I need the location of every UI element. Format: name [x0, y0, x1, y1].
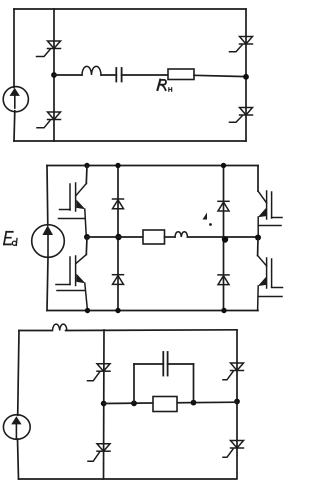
label i mark — [203, 213, 212, 226]
wire capacitor loop top left — [134, 363, 163, 365]
wire — [122, 74, 168, 76]
wire bottom bus — [14, 140, 246, 142]
voltage source Ed — [32, 225, 65, 258]
thyristor VS2 — [37, 112, 61, 128]
wire bottom rail — [19, 478, 237, 480]
IGBT VT4 — [258, 256, 283, 311]
label Ed — [4, 232, 17, 246]
wire right thyristor branch — [245, 9, 247, 141]
node right mid — [243, 74, 249, 80]
thyristor VS7 — [223, 363, 244, 380]
node mid-left leg — [84, 234, 90, 240]
wire right thyristor branch — [236, 330, 238, 479]
wire commutation mid — [104, 402, 237, 403]
wire left edge upper — [18, 331, 19, 416]
node left mid — [51, 72, 57, 78]
thyristor VS5 — [88, 364, 111, 381]
node — [131, 400, 137, 406]
wire — [188, 236, 259, 238]
inductor load — [175, 232, 188, 237]
node — [115, 308, 120, 313]
node mid-right leg — [255, 235, 261, 241]
wire top rail — [47, 165, 258, 167]
label Rн — [158, 80, 172, 92]
wire collector drop VT1 — [85, 166, 88, 184]
wire left edge lower — [18, 439, 19, 479]
node — [221, 163, 226, 168]
current source Id — [3, 415, 30, 440]
node — [222, 236, 228, 242]
capacitor C1 — [116, 68, 121, 82]
thyristor VS3 — [230, 37, 253, 52]
IGBT VT1 — [59, 183, 87, 237]
inductor L1 — [82, 66, 101, 75]
wire collector drop VT4 — [257, 238, 259, 256]
wire top bus — [14, 8, 246, 10]
wire — [101, 74, 116, 76]
diode VD1 — [113, 199, 124, 209]
wire — [165, 236, 176, 238]
wire collector drop VT3 — [257, 166, 259, 192]
capacitor Ck — [163, 352, 167, 376]
wire top — [66, 329, 237, 332]
node top-left leg — [84, 163, 89, 168]
node — [221, 308, 226, 313]
wire capacitor loop right leg — [193, 364, 195, 403]
wire — [194, 75, 246, 76]
node — [115, 234, 121, 240]
diode VD3 — [218, 201, 229, 211]
thyristor VS6 — [88, 444, 110, 462]
wire collector drop VT2 — [85, 237, 88, 255]
IGBT VT2 — [56, 255, 88, 311]
node — [101, 401, 107, 407]
thyristor VS1 — [37, 41, 61, 57]
wire mid load — [87, 236, 143, 238]
node — [234, 399, 240, 405]
node bottom-left leg — [85, 308, 90, 313]
thyristor VS4 — [230, 108, 253, 123]
wire left edge lower — [13, 111, 16, 141]
wire bottom rail — [47, 310, 258, 312]
resistor load box — [143, 230, 165, 244]
wire load left segment — [54, 74, 82, 76]
inductor Ld — [53, 324, 67, 330]
wire left edge lower — [47, 257, 48, 310]
wire right diode branch — [223, 166, 225, 311]
wire left diode branch — [117, 166, 119, 311]
node — [115, 163, 120, 168]
wire left edge upper — [46, 166, 49, 226]
resistor load box — [153, 397, 177, 412]
node — [191, 400, 197, 406]
diode VD2 — [113, 275, 124, 285]
wire capacitor loop top right — [168, 363, 194, 365]
wire top left — [19, 330, 52, 332]
wire left thyristor branch — [53, 9, 55, 141]
IGBT VT3 — [258, 191, 282, 238]
resistor Rн box — [168, 69, 194, 80]
thyristor VS8 — [223, 441, 244, 458]
wire capacitor loop left leg — [133, 364, 135, 403]
wire left edge upper — [13, 9, 15, 88]
diode VD4 — [218, 275, 229, 285]
wire inner thyristor branch — [103, 330, 106, 479]
current source I — [3, 87, 28, 112]
